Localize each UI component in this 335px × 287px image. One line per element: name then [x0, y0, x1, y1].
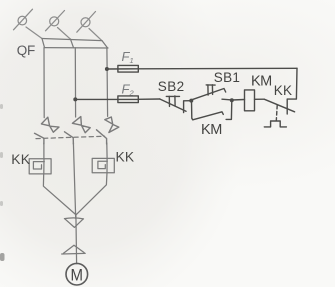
node on phase B (F2 tap)	[73, 97, 77, 101]
pushbutton SB1 (NO) blade	[192, 89, 226, 100]
wire heater-left down & converge	[43, 174, 75, 215]
svg-text:KK: KK	[274, 83, 292, 98]
fuse F1	[118, 65, 138, 72]
wire node to F2	[75, 98, 138, 100]
SB1 actuator	[206, 85, 215, 95]
wire coil to KK contact	[255, 98, 265, 100]
svg-text:SB2: SB2	[158, 79, 185, 94]
svg-text:KK: KK	[116, 150, 135, 165]
KK reset bump symbol	[264, 121, 286, 127]
pushbutton SB2 (NC) blade	[160, 99, 186, 111]
KK trip linkage (dashed)	[275, 105, 278, 120]
contactor coil KM	[245, 90, 255, 111]
wire contact3 to heater	[106, 143, 108, 158]
wire phase C vertical	[106, 48, 109, 116]
scan smudges left edge	[0, 104, 3, 206]
wire contact1 to heater	[43, 143, 45, 159]
KM contacts linkage (dashed)	[36, 136, 105, 138]
QF tie-bar box	[42, 39, 108, 49]
wire F1 to right rail	[138, 67, 297, 70]
QF switch blade lead 2	[58, 28, 71, 40]
node on phase C (F1 tap)	[105, 67, 109, 71]
connector upper half (female)	[64, 218, 83, 228]
svg-text:M: M	[71, 265, 84, 284]
SB2 actuator	[166, 96, 179, 107]
KK thermal contact blade	[264, 99, 294, 112]
KK heater element left	[29, 159, 51, 174]
wire phase B vertical	[74, 48, 76, 117]
KM main contact 1	[35, 117, 60, 144]
svg-text:KK: KK	[11, 152, 30, 167]
svg-text:KM: KM	[251, 74, 272, 90]
terminal L1 (circle with slash)	[14, 9, 33, 30]
KM main contact 2	[65, 117, 91, 144]
KM aux contact branch	[192, 100, 232, 120]
svg-text:QF: QF	[17, 43, 35, 58]
node after SB2	[189, 99, 193, 103]
wire phase B lower	[73, 143, 75, 219]
connector lower half (male)	[62, 245, 85, 254]
QF switch blade lead 3	[89, 29, 102, 41]
fuse F2	[118, 96, 138, 103]
wire phase A vertical	[43, 48, 45, 118]
KM main contact 3	[97, 117, 119, 144]
terminal L3	[77, 12, 96, 33]
wire node to coil	[232, 99, 245, 102]
wire F2 to SB2	[138, 98, 160, 100]
SB1 fixed terminal	[222, 98, 232, 101]
terminal L2	[46, 11, 65, 31]
QF switch blade lead 1	[26, 27, 42, 39]
SB2 fixed terminal	[184, 101, 192, 113]
wire converge to motor	[75, 214, 78, 264]
svg-text:SB1: SB1	[214, 70, 240, 85]
wire node to F1	[107, 68, 138, 70]
motor M1	[66, 263, 88, 285]
wire heater-right down & converge	[76, 173, 107, 215]
right rail drop	[287, 68, 297, 114]
node after SB1	[230, 98, 234, 102]
svg-text:KM: KM	[201, 122, 222, 138]
KK heater element right	[92, 158, 114, 172]
